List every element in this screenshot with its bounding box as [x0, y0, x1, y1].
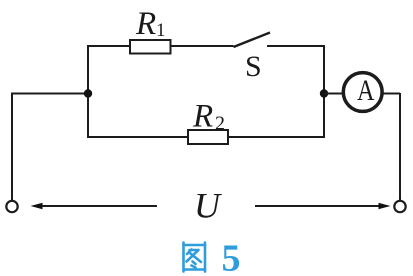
- wire left branch vertical: [87, 45, 89, 137]
- ammeter A: [343, 73, 382, 112]
- node junction right: [320, 89, 328, 97]
- svg-text:A: A: [357, 74, 375, 107]
- wire right vertical to terminal: [399, 93, 401, 200]
- resistor R2: [188, 130, 228, 144]
- U arrow left: [41, 205, 157, 207]
- wire right branch vertical: [323, 45, 325, 138]
- switch S lever (open): [234, 33, 271, 48]
- svg-text:5: 5: [222, 238, 241, 276]
- caption char tu (figure) drawn: [184, 243, 206, 272]
- wire node to ammeter: [324, 93, 344, 95]
- wire R2 right lead: [228, 136, 324, 138]
- wire ammeter right: [381, 93, 400, 95]
- terminal right: [394, 201, 405, 212]
- svg-text:S: S: [245, 50, 262, 83]
- terminal left: [6, 201, 17, 212]
- svg-text:U: U: [194, 186, 222, 226]
- resistor R1: [130, 40, 171, 54]
- node junction left: [84, 89, 92, 97]
- wire top-left horizontal to node: [11, 93, 88, 95]
- wire R2 left lead: [87, 136, 188, 138]
- svg-text:1: 1: [156, 20, 166, 41]
- svg-text:2: 2: [215, 113, 225, 135]
- wire switch right to corner: [267, 45, 325, 47]
- svg-text:R: R: [192, 99, 213, 135]
- wire R1 to switch: [170, 45, 234, 47]
- U arrow right: [255, 205, 379, 207]
- wire left vertical main: [11, 94, 13, 201]
- wire R1 left lead: [88, 45, 130, 47]
- svg-text:R: R: [135, 6, 156, 42]
